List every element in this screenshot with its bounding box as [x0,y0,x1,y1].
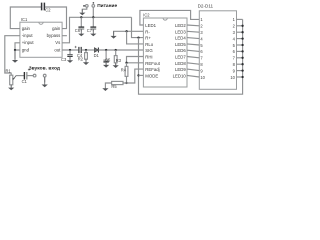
potentiometer R1 [10,75,17,85]
IC2 box LM3914 [143,18,187,87]
svg-text:1: 1 [200,17,203,22]
svg-text:3: 3 [200,30,203,35]
wire [44,77,46,82]
svg-text:9: 9 [233,68,236,73]
wire gain loop with C2 [10,7,41,29]
svg-text:4: 4 [233,36,236,41]
svg-text:Питание: Питание [97,3,117,9]
node R+ junction [137,36,139,38]
ground [113,31,115,36]
svg-text:R+: R+ [145,36,151,41]
svg-text:LED7: LED7 [175,55,186,60]
svg-text:R2: R2 [78,57,84,62]
svg-text:+input: +input [22,40,35,45]
svg-text:gain: gain [52,26,61,31]
node R2 tap [85,49,87,51]
svg-text:6: 6 [200,49,203,54]
svg-text:C1: C1 [22,79,28,84]
svg-text:R3: R3 [116,58,122,63]
svg-text:REFadj: REFadj [145,67,159,72]
wire R- to ground [114,31,144,35]
ground [69,57,71,61]
svg-text:RLo: RLo [145,42,153,47]
resistor R2 [85,50,88,61]
capacitor C3 [67,50,72,59]
ground [92,29,94,34]
resistor R5 [105,81,123,89]
node input terminal 1 [33,74,36,77]
node R3 tap [115,49,117,51]
svg-text:5: 5 [233,43,236,48]
svg-text:8: 8 [200,62,203,67]
wire LED2-LED10 to display pins [187,25,199,77]
svg-text:R4: R4 [121,68,127,73]
svg-text:7: 7 [233,56,236,61]
ground [80,29,82,34]
svg-text:5: 5 [200,43,203,48]
svg-text:RHi: RHi [145,55,152,60]
node R- RLo junction [125,30,127,32]
svg-text:-input: -input [22,33,34,38]
wire RLo [127,31,144,44]
svg-text:R-: R- [145,29,150,34]
capacitor C7 [90,17,96,31]
capacitor C1 [23,72,25,80]
ground [81,9,83,13]
svg-text:4: 4 [200,36,203,41]
node REFout junction [125,62,127,64]
wire RHi to REFout tie [127,57,144,63]
wire out rail [62,49,78,51]
capacitor C4 [75,46,77,48]
svg-text:bypass: bypass [47,33,61,38]
svg-text:LED5: LED5 [175,42,186,47]
ground [85,59,87,63]
svg-text:R5: R5 [111,84,117,89]
ground [10,85,12,88]
svg-text:2: 2 [200,24,203,29]
svg-text:R1: R1 [6,68,12,73]
ground [102,88,108,91]
node C3 tap [69,49,71,51]
display block D2-D11 [199,11,236,90]
ground [105,62,107,65]
svg-text:REFout: REFout [145,61,160,66]
svg-text:C7: C7 [87,28,93,33]
svg-text:D2-D11: D2-D11 [198,3,214,8]
svg-text:Vs: Vs [55,40,60,45]
svg-text:8: 8 [233,62,236,67]
node C5 tap [105,49,107,51]
svg-text:C3: C3 [61,57,67,62]
terminal plus Питание [92,2,95,17]
svg-text:7: 7 [200,56,203,61]
wire [82,49,95,51]
svg-text:C6: C6 [75,28,81,33]
svg-text:gain: gain [22,26,31,31]
svg-text:10: 10 [200,75,205,80]
svg-text:Звуков. вход: Звуков. вход [29,65,61,71]
resistor R4 [125,63,128,83]
svg-text:D1: D1 [94,53,100,58]
svg-text:LED2: LED2 [175,23,186,28]
svg-text:3: 3 [233,30,236,35]
wire -input to volume [5,36,20,75]
diode D1 [94,48,98,53]
svg-text:2: 2 [233,24,236,29]
wire wiper to C1 [16,75,24,77]
svg-text:C2: C2 [45,8,51,13]
svg-text:out: out [54,47,61,52]
wire detector rail to SIG [98,49,143,51]
svg-text:LED3: LED3 [175,29,186,34]
svg-text:10: 10 [230,75,235,80]
svg-text:MODE: MODE [145,73,158,78]
wire LED1 to display pin1 [140,10,199,25]
svg-text:1: 1 [233,17,236,22]
wire [45,7,66,29]
svg-text:LED9: LED9 [175,67,186,72]
wire +input/gnd [15,43,20,59]
op-amp IC1 LM386 box [20,22,62,57]
svg-text:gnd: gnd [22,47,30,52]
capacitor C2 [42,3,45,11]
wire MODE stub [139,74,144,76]
wire display right pins to bus [237,19,243,77]
wire pot bottom [10,85,12,87]
node bus C7 [92,16,94,18]
svg-text:SIG: SIG [145,48,153,53]
wire node to REFadj [123,69,143,83]
terminal minus [82,5,88,12]
svg-text:C5: C5 [105,57,111,62]
capacitor C5 [103,50,108,65]
svg-text:LED6: LED6 [175,48,186,53]
node bus dots [241,25,243,79]
svg-text:IC2: IC2 [143,12,150,17]
wire [28,75,34,77]
svg-text:IC1: IC1 [21,17,28,22]
svg-text:LED4: LED4 [175,36,186,41]
capacitor C6 [78,17,84,31]
ground [14,50,16,61]
ground [44,77,46,85]
node +input gnd junction [14,49,16,51]
node MODE junction [137,74,139,76]
wire +V down to R+ [132,17,144,37]
node bus C6 [80,16,82,18]
svg-text:6: 6 [233,49,236,54]
svg-text:LED8: LED8 [175,61,186,66]
svg-text:LED10: LED10 [173,73,187,78]
node R4 R5 junction [125,82,127,84]
resistor R3 [114,50,117,65]
wire Vs to +V bus [62,17,131,43]
ground [115,63,117,66]
svg-text:9: 9 [200,68,203,73]
wire +V vertical to bottom rail [139,19,243,94]
svg-text:LED1: LED1 [145,23,156,28]
node input terminal 2 [43,74,46,77]
